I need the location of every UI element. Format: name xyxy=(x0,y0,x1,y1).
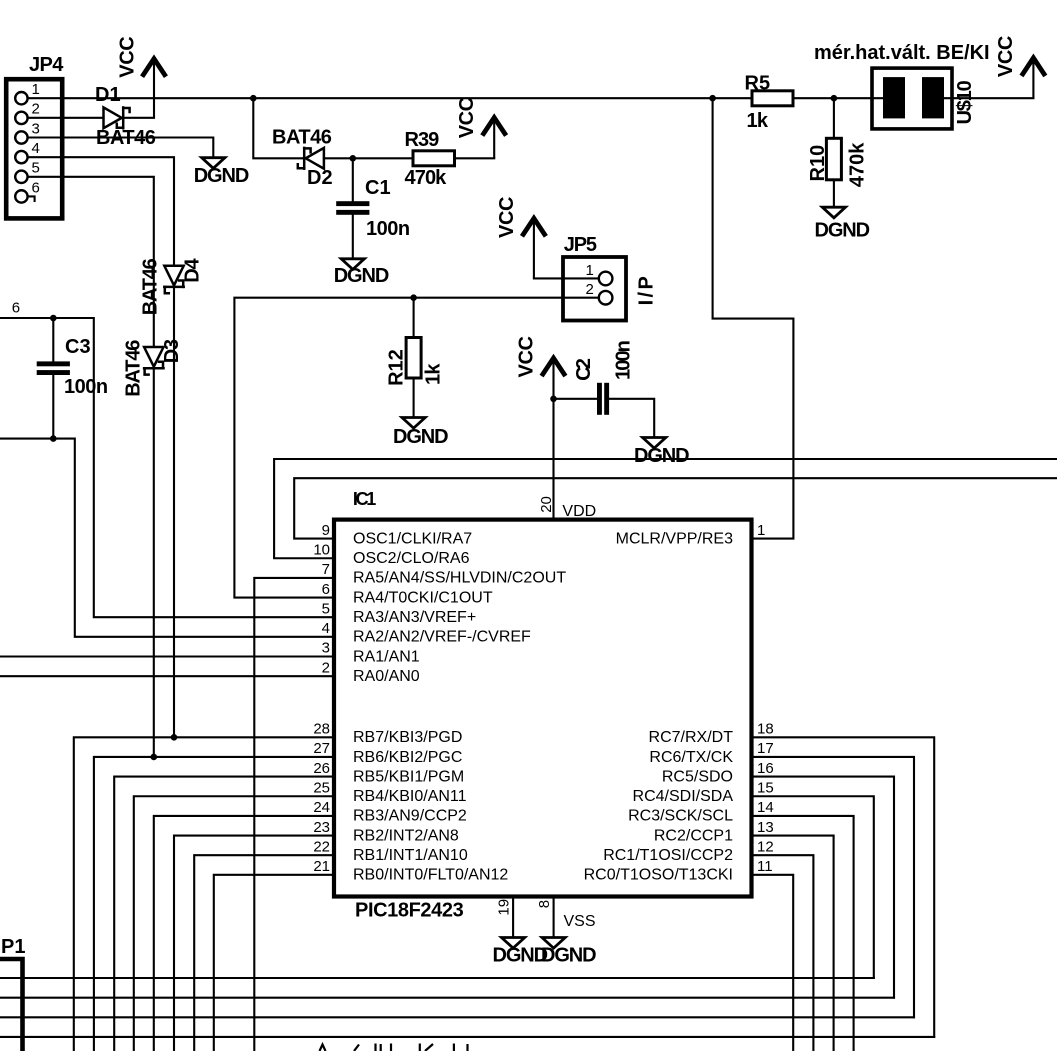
supply VCC at switch output xyxy=(995,36,1044,98)
svg-text:D4: D4 xyxy=(181,258,203,283)
supply VCC at R39 xyxy=(456,97,505,158)
svg-text:1: 1 xyxy=(586,262,594,279)
svg-text:19: 19 xyxy=(496,899,513,916)
JP5 pin 1 circle xyxy=(599,272,613,286)
value 100n of C1 xyxy=(366,218,410,240)
wire RB pin 25 to bottom xyxy=(134,796,334,1051)
IC1 pin number 8 xyxy=(536,900,553,908)
value 1k of R12 xyxy=(423,363,445,385)
diode D4 BAT46 xyxy=(164,266,183,294)
wire C2 to ground xyxy=(609,399,654,438)
ground DGND below R10 xyxy=(815,207,870,241)
resistor R12 xyxy=(406,338,421,379)
IC1 pin name MCLR/VPP/RE3 xyxy=(616,530,733,547)
wire junction to C1 xyxy=(352,158,354,201)
value 470k of R10 xyxy=(847,142,869,187)
svg-text:DGND: DGND xyxy=(493,944,548,966)
svg-text:2: 2 xyxy=(322,659,330,676)
svg-text:VCC: VCC xyxy=(516,336,538,377)
wire MCLR net xyxy=(713,98,794,538)
svg-text:VSS: VSS xyxy=(564,913,596,930)
resistor R10 xyxy=(826,138,841,180)
diode D1 BAT46 xyxy=(104,107,130,128)
svg-text:RA1/AN1: RA1/AN1 xyxy=(353,648,420,665)
junction at MCLR branch xyxy=(709,95,716,102)
label JP4 xyxy=(29,54,64,76)
svg-text:1k: 1k xyxy=(747,110,769,132)
value BAT46 of D1 xyxy=(96,127,156,149)
svg-text:BAT46: BAT46 xyxy=(272,127,332,149)
label D2 xyxy=(307,167,333,189)
label P1 xyxy=(1,936,25,958)
svg-text:D1: D1 xyxy=(95,84,121,106)
IC1 pin number 10 xyxy=(313,541,330,558)
wire JP4 pin2 to D1 xyxy=(28,117,104,119)
svg-text:I/P: I/P xyxy=(635,274,657,306)
IC1 pin name RB2/INT2/AN8 xyxy=(353,827,459,844)
IC1 pin name RC7/RX/DT xyxy=(649,729,734,746)
svg-text:5: 5 xyxy=(32,160,40,177)
svg-text:DGND: DGND xyxy=(393,426,448,448)
IC1 pin name RA3/AN3/VREF+ xyxy=(353,609,476,626)
IC1 pin number 12 xyxy=(757,838,774,855)
wire R12 to ground xyxy=(413,378,415,418)
svg-text:2: 2 xyxy=(32,101,40,118)
IC1 pin number 28 xyxy=(313,721,330,738)
IC1 pin number 1 xyxy=(757,522,765,539)
wire RB pin 22 to bottom xyxy=(194,855,334,1051)
value 100n of C2 xyxy=(613,341,635,380)
wire VSS pin19 xyxy=(512,897,514,938)
wire JP4 pin5 to D3 xyxy=(28,177,154,347)
junction at R12 xyxy=(410,294,417,301)
switch title mer.hat.valt. BE/KI xyxy=(814,42,990,64)
svg-text:RB5/KBI1/PGM: RB5/KBI1/PGM xyxy=(353,768,464,785)
svg-text:RC2/CCP1: RC2/CCP1 xyxy=(654,827,733,844)
wire RB pin 24 to bottom xyxy=(154,816,334,1051)
bus wire 2 to P1 xyxy=(0,997,894,999)
svg-text:MCLR/VPP/RE3: MCLR/VPP/RE3 xyxy=(616,530,733,547)
svg-text:7: 7 xyxy=(322,561,330,578)
wire RB pin 21 to bottom xyxy=(214,875,334,1051)
JP5 pin number 2 xyxy=(586,281,594,298)
IC1 pin name RC6/TX/CK xyxy=(649,749,733,766)
label D3 xyxy=(161,339,183,363)
IC1 pin name RB5/KBI1/PGM xyxy=(353,768,464,785)
svg-text:1k: 1k xyxy=(423,363,445,385)
value BAT46 of D3 xyxy=(122,340,144,397)
IC1 pin number 7 xyxy=(322,561,330,578)
IC1 pin name RA2/AN2/VREF-/CVREF xyxy=(353,629,531,646)
resistor R5 xyxy=(752,91,793,106)
designator U$10 xyxy=(954,80,976,124)
svg-text:C1: C1 xyxy=(365,177,391,199)
ground DGND at pin19 xyxy=(493,938,548,967)
svg-text:VDD: VDD xyxy=(562,503,596,520)
IC1 pin name RB0/INT0/FLT0/AN12 xyxy=(353,867,508,884)
capacitor C2 xyxy=(597,383,609,415)
diode D2 BAT46 xyxy=(298,148,324,169)
bus wire 4 to P1 xyxy=(0,1036,934,1038)
value 470k of R39 xyxy=(405,167,448,189)
svg-text:23: 23 xyxy=(313,819,330,836)
svg-text:17: 17 xyxy=(757,740,774,757)
wire D3 to RB6 xyxy=(153,370,155,757)
svg-text:10: 10 xyxy=(313,541,330,558)
IC1 pin number 2 xyxy=(322,659,330,676)
svg-text:RA3/AN3/VREF+: RA3/AN3/VREF+ xyxy=(353,609,476,626)
IC1 pin name VSS xyxy=(564,913,596,930)
wire RA2 net to left edge xyxy=(0,439,334,637)
label R39 xyxy=(405,129,440,151)
IC1 pin name RC3/SCK/SCL xyxy=(628,808,733,825)
label D4 xyxy=(181,258,203,283)
svg-text:4: 4 xyxy=(322,620,330,637)
wire junction to R12 xyxy=(413,298,415,338)
svg-text:100n: 100n xyxy=(64,376,108,398)
junction D3 on RB6 stub xyxy=(151,754,158,761)
wire RC pin 12 xyxy=(752,855,814,1051)
svg-text:IC1: IC1 xyxy=(353,489,376,509)
IC1 pin number 19 xyxy=(496,899,513,916)
bus wire 1 to P1 xyxy=(0,977,874,979)
IC1 pin name OSC1/CLKI/RA7 xyxy=(353,530,472,547)
net label 6 xyxy=(12,300,20,317)
IC1 pin name RB1/INT1/AN10 xyxy=(353,847,468,864)
IC1 pin number 13 xyxy=(757,819,774,836)
wire JP4 pin1 to R5 xyxy=(28,97,752,99)
svg-text:20: 20 xyxy=(538,496,555,513)
JP5 pin 2 circle xyxy=(599,291,613,305)
svg-text:VCC: VCC xyxy=(116,37,138,78)
IC1 pin number 11 xyxy=(757,858,773,875)
IC1 pin name RC1/T1OSI/CCP2 xyxy=(603,847,733,864)
ground DGND below R12 xyxy=(393,418,448,449)
wire VCC to IC VDD pin 20 xyxy=(552,399,554,520)
IC1 pin name RB6/KBI2/PGC xyxy=(353,749,462,766)
capacitor C3 xyxy=(37,361,70,375)
svg-text:RA5/AN4/SS/HLVDIN/C2OUT: RA5/AN4/SS/HLVDIN/C2OUT xyxy=(353,570,566,587)
svg-text:P1: P1 xyxy=(1,936,25,958)
wire D2 to R39 xyxy=(302,157,304,159)
label R12 xyxy=(386,349,408,386)
IC1 pin name RC0/T1OSO/T13CKI xyxy=(584,867,733,884)
svg-text:R10: R10 xyxy=(807,145,829,182)
IC1 pin name RB7/KBI3/PGD xyxy=(353,729,462,746)
supply VCC at VDD xyxy=(516,336,564,398)
IC1 pin name OSC2/CLO/RA6 xyxy=(353,550,470,567)
wire JP4 pin3 to ground xyxy=(28,138,214,158)
svg-text:RB6/KBI2/PGC: RB6/KBI2/PGC xyxy=(353,749,462,766)
connector JP4 xyxy=(6,79,62,218)
svg-text:21: 21 xyxy=(313,858,330,875)
JP4 pin 1 circle xyxy=(15,92,27,104)
svg-text:RC1/T1OSI/CCP2: RC1/T1OSI/CCP2 xyxy=(603,847,733,864)
svg-text:100n: 100n xyxy=(366,218,410,240)
value I/P of JP5 xyxy=(635,274,657,306)
IC1 pin number 26 xyxy=(313,760,330,777)
wire junction down to D2 xyxy=(253,98,302,158)
IC1 pin name VDD xyxy=(562,503,596,520)
svg-text:15: 15 xyxy=(757,779,774,796)
svg-text:3: 3 xyxy=(32,120,40,137)
IC1 pin number 21 xyxy=(313,858,330,875)
svg-text:1: 1 xyxy=(32,81,40,98)
svg-text:JP5: JP5 xyxy=(564,234,597,256)
svg-text:14: 14 xyxy=(757,799,774,816)
IC1 pin number 20 xyxy=(538,496,555,513)
wire R5 to switch xyxy=(793,97,883,99)
wire RC pin 17 xyxy=(752,757,915,1017)
svg-text:16: 16 xyxy=(757,760,774,777)
ground DGND below C1 xyxy=(334,259,389,287)
junction at C3 top xyxy=(50,315,57,322)
bus wire 3 to P1 xyxy=(0,1016,914,1018)
svg-text:D2: D2 xyxy=(307,167,333,189)
svg-text:100n: 100n xyxy=(613,341,635,380)
IC1 pin number 22 xyxy=(313,838,330,855)
resistor R39 xyxy=(413,151,455,166)
svg-text:RC3/SCK/SCL: RC3/SCK/SCL xyxy=(628,808,733,825)
supply VCC above D1 xyxy=(116,37,164,118)
JP4 pin number 3 xyxy=(32,120,40,137)
JP5 pin number 1 xyxy=(586,262,594,279)
designator IC1 xyxy=(353,489,376,509)
svg-text:11: 11 xyxy=(757,858,773,875)
svg-text:U$10: U$10 xyxy=(954,80,976,124)
wire D4 to RB7 xyxy=(173,289,175,738)
wire junction to C2 xyxy=(554,398,598,400)
svg-text:RC6/TX/CK: RC6/TX/CK xyxy=(649,749,733,766)
wire R39 to VCC xyxy=(455,157,495,159)
value PIC18F2423 xyxy=(355,900,464,922)
IC1 pin number 27 xyxy=(313,740,330,757)
svg-text:mér.hat.vált. BE/KI: mér.hat.vált. BE/KI xyxy=(814,42,990,64)
wire OSC2 net pin10 xyxy=(274,459,1057,558)
IC1 pin name RC2/CCP1 xyxy=(654,827,733,844)
ground DGND at JP4 pin3 xyxy=(194,158,249,187)
JP4 pin 3 circle xyxy=(15,131,27,143)
wire RC pin 13 xyxy=(752,836,834,1051)
label C3 xyxy=(65,336,91,358)
value 100n of C3 xyxy=(64,376,108,398)
JP4 pin number 5 xyxy=(32,160,40,177)
value BAT46 of D4 xyxy=(140,258,162,315)
IC U1 IC1 PIC18F2423 body xyxy=(334,520,752,897)
junction at D2 branch xyxy=(250,95,257,102)
junction at C3 bottom xyxy=(50,435,57,442)
wire RC pin 18 xyxy=(752,737,935,1037)
svg-text:BAT46: BAT46 xyxy=(122,340,144,397)
clipped caption text at bottom xyxy=(320,1044,468,1051)
label JP5 xyxy=(564,234,597,256)
supply VCC at JP5 xyxy=(496,197,545,278)
svg-text:RB3/AN9/CCP2: RB3/AN9/CCP2 xyxy=(353,808,467,825)
junction at C2 xyxy=(550,396,557,403)
ground DGND at pin8 xyxy=(541,938,596,967)
svg-text:6: 6 xyxy=(12,300,20,317)
svg-text:RC7/RX/DT: RC7/RX/DT xyxy=(649,729,734,746)
svg-text:27: 27 xyxy=(313,740,330,757)
wire VSS pin8 xyxy=(553,897,555,938)
junction D4 on RB7 stub xyxy=(171,734,178,741)
svg-text:13: 13 xyxy=(757,819,774,836)
svg-text:RB2/INT2/AN8: RB2/INT2/AN8 xyxy=(353,827,459,844)
label C1 xyxy=(365,177,391,199)
JP4 pin number 2 xyxy=(32,101,40,118)
svg-text:8: 8 xyxy=(536,900,553,908)
IC1 pin name RC4/SDI/SDA xyxy=(633,788,734,805)
svg-text:OSC2/CLO/RA6: OSC2/CLO/RA6 xyxy=(353,550,470,567)
svg-text:470k: 470k xyxy=(847,142,869,187)
svg-text:2: 2 xyxy=(586,281,594,298)
label R5 xyxy=(745,72,771,94)
wire D1 to VCC riser xyxy=(124,117,154,119)
IC1 pin name RA0/AN0 xyxy=(353,668,420,685)
svg-text:28: 28 xyxy=(313,721,330,738)
ground DGND at C2 xyxy=(634,438,689,468)
svg-text:OSC1/CLKI/RA7: OSC1/CLKI/RA7 xyxy=(353,530,472,547)
svg-text:BAT46: BAT46 xyxy=(140,258,162,315)
svg-text:DGND: DGND xyxy=(334,265,389,287)
svg-text:RB4/KBI0/AN11: RB4/KBI0/AN11 xyxy=(353,788,467,805)
IC1 pin number 18 xyxy=(757,721,774,738)
svg-text:R12: R12 xyxy=(386,349,408,386)
wire R10 to ground xyxy=(833,180,835,207)
wire RB pin 26 to bottom xyxy=(114,777,334,1051)
wire RA5 pin7 column xyxy=(254,578,334,1051)
wire RB pin 27 to bottom xyxy=(94,757,334,1051)
IC1 pin name RB4/KBI0/AN11 xyxy=(353,788,467,805)
svg-text:RB1/INT1/AN10: RB1/INT1/AN10 xyxy=(353,847,468,864)
svg-text:RC5/SDO: RC5/SDO xyxy=(662,768,733,785)
svg-text:DGND: DGND xyxy=(194,165,249,187)
svg-text:R5: R5 xyxy=(745,72,771,94)
wire JP4 pin4 to D4 xyxy=(28,157,174,266)
svg-text:JP4: JP4 xyxy=(29,54,64,76)
connector P1 xyxy=(0,959,23,1051)
wire junction to R10 xyxy=(833,98,835,138)
svg-text:RB0/INT0/FLT0/AN12: RB0/INT0/FLT0/AN12 xyxy=(353,867,508,884)
IC1 pin number 23 xyxy=(313,819,330,836)
wire RC pin 16 xyxy=(752,777,895,998)
wire RC pin 11 xyxy=(752,875,794,1051)
IC1 pin name RB3/AN9/CCP2 xyxy=(353,808,467,825)
wire OSC1 net pin9 xyxy=(294,478,1057,538)
wire RC pin 14 xyxy=(752,816,854,1051)
svg-text:24: 24 xyxy=(313,799,330,816)
wire JP5 pin2 net xyxy=(234,298,599,598)
IC1 pin number 14 xyxy=(757,799,774,816)
IC1 pin number 3 xyxy=(322,640,330,657)
connector JP5 xyxy=(563,257,626,321)
value BAT46 of D2 xyxy=(272,127,332,149)
svg-text:RA0/AN0: RA0/AN0 xyxy=(353,668,420,685)
JP4 pin 2 circle xyxy=(15,112,27,124)
IC1 pin number 4 xyxy=(322,620,330,637)
IC1 pin number 5 xyxy=(322,600,330,617)
svg-text:470k: 470k xyxy=(405,167,448,189)
svg-text:18: 18 xyxy=(757,721,774,738)
JP4 pin6 stub xyxy=(28,196,35,201)
diode D3 BAT46 xyxy=(144,347,163,375)
svg-text:VCC: VCC xyxy=(496,197,518,238)
IC1 pin number 24 xyxy=(313,799,330,816)
svg-text:DGND: DGND xyxy=(541,944,596,966)
IC1 pin number 25 xyxy=(313,779,330,796)
svg-text:26: 26 xyxy=(313,760,330,777)
wire RB pin 28 to bottom xyxy=(74,737,334,1051)
svg-text:RB7/KBI3/PGD: RB7/KBI3/PGD xyxy=(353,729,462,746)
JP4 pin 5 circle xyxy=(15,171,27,183)
label D1 xyxy=(95,84,121,106)
IC1 pin name RA5/AN4/SS/HLVDIN/C2OUT xyxy=(353,570,566,587)
junction at R10 branch xyxy=(831,95,838,102)
svg-text:4: 4 xyxy=(32,140,40,157)
svg-text:C2: C2 xyxy=(573,358,595,381)
wire RC pin 15 xyxy=(752,796,874,978)
IC1 pin name RC5/SDO xyxy=(662,768,733,785)
svg-text:DGND: DGND xyxy=(634,445,689,467)
svg-text:9: 9 xyxy=(322,522,330,539)
svg-text:VCC: VCC xyxy=(456,97,478,138)
svg-text:DGND: DGND xyxy=(815,220,870,242)
IC1 pin name RA4/T0CKI/C1OUT xyxy=(353,589,493,606)
svg-text:RC4/SDI/SDA: RC4/SDI/SDA xyxy=(633,788,734,805)
svg-text:25: 25 xyxy=(313,779,330,796)
JP4 pin number 6 xyxy=(32,179,40,196)
wire RA0 to left edge xyxy=(0,675,334,677)
wire C3 bottom xyxy=(52,375,54,439)
svg-text:1: 1 xyxy=(757,522,765,539)
wire RB pin 23 to bottom xyxy=(174,836,334,1051)
switch U$10 mer.hat.valt. BE/KI xyxy=(872,68,952,129)
svg-text:22: 22 xyxy=(313,838,330,855)
svg-text:VCC: VCC xyxy=(995,36,1017,77)
svg-text:C3: C3 xyxy=(65,336,91,358)
label R10 xyxy=(807,145,829,182)
svg-text:5: 5 xyxy=(322,600,330,617)
wire C1 to ground xyxy=(352,215,354,259)
svg-text:RA2/AN2/VREF-/CVREF: RA2/AN2/VREF-/CVREF xyxy=(353,629,531,646)
IC1 pin number 6 xyxy=(322,581,330,598)
capacitor C1 xyxy=(336,201,369,215)
svg-text:6: 6 xyxy=(322,581,330,598)
svg-text:6: 6 xyxy=(32,179,40,196)
IC1 pin name RA1/AN1 xyxy=(353,648,420,665)
IC1 pin number 17 xyxy=(757,740,774,757)
svg-text:D3: D3 xyxy=(161,339,183,363)
wire net 6 to RA3 riser xyxy=(0,318,334,617)
JP4 pin 4 circle xyxy=(15,151,27,163)
wire C3 top xyxy=(52,318,54,361)
svg-text:3: 3 xyxy=(322,640,330,657)
IC1 pin number 15 xyxy=(757,779,774,796)
JP4 pin number 4 xyxy=(32,140,40,157)
JP4 pin number 1 xyxy=(32,81,40,98)
wire VCC to JP5 pin1 xyxy=(534,277,599,279)
IC1 pin number 16 xyxy=(757,760,774,777)
svg-text:RA4/T0CKI/C1OUT: RA4/T0CKI/C1OUT xyxy=(353,589,493,606)
JP4 pin 6 circle xyxy=(15,190,27,202)
wire switch to VCC xyxy=(944,97,1033,99)
svg-text:PIC18F2423: PIC18F2423 xyxy=(355,900,464,922)
svg-text:RC0/T1OSO/T13CKI: RC0/T1OSO/T13CKI xyxy=(584,867,733,884)
junction at C1 xyxy=(350,155,357,162)
label C2 xyxy=(573,358,595,381)
wire D2 anode to R39 xyxy=(324,157,413,159)
IC1 pin number 9 xyxy=(322,522,330,539)
